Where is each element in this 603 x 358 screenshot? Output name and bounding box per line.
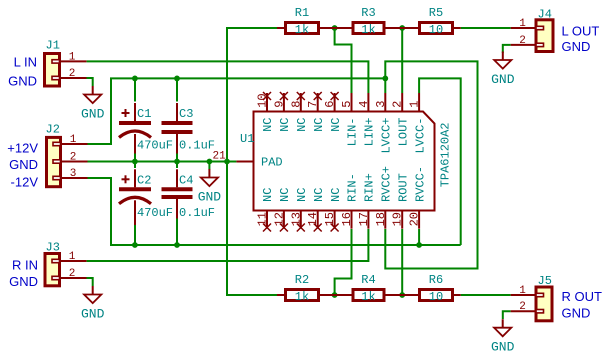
svg-text:NC: NC bbox=[295, 188, 309, 202]
U1 pin 4 (LIN+) top bbox=[357, 93, 377, 146]
U1 pin 11 (NC) bottom bbox=[256, 188, 276, 232]
svg-text:NC: NC bbox=[278, 118, 292, 132]
svg-text:4: 4 bbox=[357, 101, 371, 108]
svg-text:+12V: +12V bbox=[7, 141, 38, 156]
wire LIN- node down to U1 pin 5 bbox=[335, 28, 352, 93]
svg-text:10: 10 bbox=[256, 93, 270, 107]
U1 pin 3 (LVCC+) top bbox=[374, 93, 394, 154]
U1 pin 5 (LIN-) top bbox=[340, 93, 360, 146]
svg-text:R IN: R IN bbox=[12, 258, 38, 273]
svg-text:0.1uF: 0.1uF bbox=[179, 206, 215, 220]
node C1/+12V junction bbox=[132, 76, 138, 82]
node R2/R4/RIN- junction bbox=[332, 292, 338, 298]
svg-text:GND: GND bbox=[198, 189, 222, 204]
U1 pin 16 (RIN-) bottom bbox=[340, 173, 360, 229]
svg-text:-12V: -12V bbox=[11, 174, 39, 189]
wire C2 bottom to -12V rail bbox=[134, 225, 136, 245]
wire C1 bottom to GND rail bbox=[134, 154, 136, 162]
wire LOUT node down to U1 pin 2 bbox=[401, 28, 403, 93]
svg-text:NC: NC bbox=[329, 188, 343, 202]
ground symbol below J3 bbox=[81, 286, 105, 321]
svg-text:12: 12 bbox=[272, 212, 286, 226]
wire C2 top to GND rail bbox=[134, 162, 136, 169]
svg-text:2: 2 bbox=[69, 68, 76, 80]
svg-text:16: 16 bbox=[340, 212, 354, 226]
capacitor C2 (polarized) bbox=[119, 169, 173, 225]
svg-text:C1: C1 bbox=[137, 107, 151, 121]
connector J4 bbox=[511, 8, 553, 52]
svg-text:GND: GND bbox=[81, 106, 105, 121]
wire C3 bottom to GND rail bbox=[176, 154, 178, 162]
svg-text:NC: NC bbox=[312, 188, 326, 202]
svg-text:TPA6120A2: TPA6120A2 bbox=[438, 122, 452, 187]
connector J2 bbox=[46, 123, 88, 187]
svg-text:470uF: 470uF bbox=[137, 139, 173, 153]
svg-text:C4: C4 bbox=[179, 174, 193, 188]
node C3/C4/GND junction bbox=[174, 159, 180, 165]
node R1/R3/LIN- junction bbox=[332, 25, 338, 31]
svg-text:R4: R4 bbox=[361, 273, 375, 287]
svg-text:R3: R3 bbox=[361, 6, 375, 20]
svg-text:C2: C2 bbox=[137, 174, 151, 188]
svg-text:2: 2 bbox=[519, 301, 526, 313]
svg-text:14: 14 bbox=[306, 212, 320, 226]
wire R IN from J3.1 to U1 RIN+ (pin 17) bbox=[87, 229, 369, 261]
svg-text:GND: GND bbox=[81, 306, 105, 321]
U1 pin 9 (NC) top bbox=[272, 92, 292, 132]
wire C4 bottom to -12V rail bbox=[176, 219, 178, 246]
wire LVCC- (pin 1) jog down to -12V rail bbox=[419, 78, 461, 245]
svg-text:1: 1 bbox=[69, 51, 76, 63]
svg-text:ROUT: ROUT bbox=[396, 173, 410, 202]
svg-text:GND: GND bbox=[562, 306, 591, 321]
U1 pin 18 (RVCC+) bottom bbox=[374, 166, 394, 229]
svg-text:18: 18 bbox=[374, 212, 388, 226]
svg-text:470uF: 470uF bbox=[137, 206, 173, 220]
svg-text:R6: R6 bbox=[429, 273, 443, 287]
svg-text:1: 1 bbox=[70, 134, 77, 146]
svg-text:NC: NC bbox=[278, 188, 292, 202]
svg-text:NC: NC bbox=[261, 188, 275, 202]
svg-text:LIN-: LIN- bbox=[346, 118, 360, 147]
svg-text:RIN+: RIN+ bbox=[363, 173, 377, 202]
svg-text:0.1uF: 0.1uF bbox=[179, 139, 215, 153]
svg-text:1k: 1k bbox=[295, 290, 309, 304]
U1 pin 20 (RVCC-) bottom bbox=[408, 166, 428, 229]
svg-text:8: 8 bbox=[289, 101, 303, 108]
svg-text:J4: J4 bbox=[538, 8, 552, 22]
svg-text:3: 3 bbox=[70, 168, 77, 180]
resistor R6 bbox=[402, 273, 461, 304]
svg-text:RVCC+: RVCC+ bbox=[380, 166, 394, 202]
wire R1.right to R3.left (LIN- node) bbox=[331, 27, 346, 29]
svg-text:RIN-: RIN- bbox=[346, 173, 360, 202]
U1 pin 12 (NC) bottom bbox=[272, 188, 292, 232]
svg-text:LVCC-: LVCC- bbox=[413, 118, 427, 154]
wire -12V rail from J2.3 bbox=[87, 178, 461, 245]
svg-text:9: 9 bbox=[272, 101, 286, 108]
svg-text:6: 6 bbox=[323, 101, 337, 108]
svg-text:2: 2 bbox=[391, 101, 405, 108]
wire R5.right to J4.1 (L OUT) bbox=[461, 27, 511, 29]
svg-text:GND: GND bbox=[491, 72, 515, 87]
wire RIN- node up to U1 pin 16 bbox=[335, 229, 352, 295]
capacitor C4 bbox=[162, 169, 216, 220]
svg-text:GND: GND bbox=[8, 74, 37, 89]
svg-text:NC: NC bbox=[329, 118, 343, 132]
svg-text:J2: J2 bbox=[46, 123, 60, 137]
svg-text:GND: GND bbox=[562, 39, 591, 54]
svg-text:C3: C3 bbox=[179, 107, 193, 121]
wire R1.left to R2.left vertical link bbox=[227, 28, 277, 295]
svg-text:NC: NC bbox=[295, 118, 309, 132]
svg-text:LOUT: LOUT bbox=[396, 118, 410, 147]
wire R4.right to R6.left (ROUT node) bbox=[392, 294, 410, 296]
node R1-R2 link/GND-rail junction bbox=[224, 159, 230, 165]
svg-text:U1: U1 bbox=[240, 132, 254, 146]
U1 pin 14 (NC) bottom bbox=[306, 188, 326, 232]
svg-text:21: 21 bbox=[213, 151, 227, 163]
ground symbol below J4 bbox=[491, 52, 515, 87]
svg-text:L OUT: L OUT bbox=[562, 23, 600, 38]
svg-text:R OUT: R OUT bbox=[562, 289, 603, 304]
svg-text:5: 5 bbox=[340, 101, 354, 108]
resistor R1 bbox=[277, 6, 335, 37]
svg-text:2: 2 bbox=[69, 268, 76, 280]
node R4/R6/ROUT junction bbox=[399, 292, 405, 298]
svg-text:13: 13 bbox=[289, 212, 303, 226]
U1 pin 21 (PAD) left bbox=[213, 151, 283, 170]
node R3/R5/LOUT junction bbox=[399, 25, 405, 31]
svg-text:2: 2 bbox=[519, 35, 526, 47]
U1 pin 7 (NC) top bbox=[306, 92, 326, 132]
node C1/C2/GND junction bbox=[132, 159, 138, 165]
resistor R5 bbox=[402, 6, 461, 37]
svg-text:J3: J3 bbox=[46, 241, 60, 255]
capacitor C3 bbox=[162, 103, 216, 154]
svg-text:NC: NC bbox=[261, 118, 275, 132]
wire R3.right to R5.left (LOUT node) bbox=[392, 27, 410, 29]
svg-text:1k: 1k bbox=[361, 290, 375, 304]
resistor R4 bbox=[335, 273, 403, 304]
svg-text:17: 17 bbox=[357, 212, 371, 226]
svg-text:1k: 1k bbox=[361, 23, 375, 37]
U1 pin 2 (LOUT) top bbox=[391, 93, 411, 146]
svg-text:3: 3 bbox=[374, 101, 388, 108]
wire C4 top to GND rail bbox=[176, 162, 178, 169]
wire R2.right to R4.left (RIN- node) bbox=[331, 294, 346, 296]
U1 pin 15 (NC) bottom bbox=[323, 188, 343, 232]
connector J5 bbox=[511, 274, 552, 321]
wire LVCC+ (pin 3) to RVCC+ (pin 18) +12V loop bbox=[385, 61, 477, 268]
svg-text:J1: J1 bbox=[46, 39, 60, 53]
svg-text:1: 1 bbox=[519, 18, 526, 30]
svg-text:10: 10 bbox=[429, 23, 443, 37]
svg-text:1: 1 bbox=[519, 285, 526, 297]
node RVCC-/-12V junction bbox=[416, 242, 422, 248]
wire C1 top to +12V rail bbox=[134, 78, 136, 101]
svg-text:1: 1 bbox=[408, 101, 422, 108]
U1 pin 19 (ROUT) bottom bbox=[391, 173, 411, 229]
resistor R3 bbox=[335, 6, 403, 37]
U1 pin 8 (NC) top bbox=[289, 92, 309, 132]
node GND-symbol/GND-rail junction bbox=[207, 159, 213, 165]
wire L IN from J1.1 to U1 LIN+ (pin 4) bbox=[87, 61, 369, 93]
ground symbol below J5 bbox=[491, 319, 515, 354]
wire GND rail to mid GND symbol bbox=[208, 162, 210, 170]
node C4/-12V junction bbox=[174, 242, 180, 248]
svg-text:PAD: PAD bbox=[261, 156, 283, 170]
svg-text:GND: GND bbox=[9, 274, 38, 289]
wire RVCC- (pin 20) to -12V rail bbox=[418, 229, 420, 245]
svg-text:R2: R2 bbox=[295, 273, 309, 287]
wire J3.2 to GND symbol bbox=[85, 278, 92, 286]
wire +12V rail from J2.1 bbox=[87, 78, 386, 144]
svg-text:RVCC-: RVCC- bbox=[413, 166, 427, 202]
ground symbol on GND rail bbox=[198, 169, 222, 204]
node LVCC+/+12V junction bbox=[382, 76, 388, 82]
svg-text:R1: R1 bbox=[295, 6, 309, 20]
svg-text:15: 15 bbox=[323, 212, 337, 226]
wire J4.2 to GND symbol bbox=[503, 45, 511, 53]
node C3/+12V junction bbox=[174, 76, 180, 82]
ground symbol below J1 bbox=[81, 86, 105, 121]
svg-text:11: 11 bbox=[256, 212, 270, 226]
U1 pin 6 (NC) top bbox=[323, 92, 343, 132]
svg-text:10: 10 bbox=[429, 290, 443, 304]
U1 pin 10 (NC) top bbox=[256, 92, 276, 132]
svg-text:R5: R5 bbox=[429, 6, 443, 20]
svg-text:1k: 1k bbox=[295, 23, 309, 37]
svg-text:LIN+: LIN+ bbox=[363, 118, 377, 147]
connector J1 bbox=[45, 39, 87, 87]
svg-text:7: 7 bbox=[306, 101, 320, 108]
svg-text:GND: GND bbox=[491, 340, 515, 355]
wire C3 top to +12V rail bbox=[176, 78, 178, 101]
svg-text:LVCC+: LVCC+ bbox=[380, 118, 394, 154]
wire J5.2 to GND symbol bbox=[503, 311, 511, 319]
wire R6.right to J5.1 (R OUT) bbox=[461, 294, 511, 296]
svg-text:J5: J5 bbox=[538, 274, 552, 288]
wire GND rail from J2.2 to U1 PAD bbox=[87, 161, 237, 163]
connector J3 bbox=[45, 241, 87, 286]
U1 pin 1 (LVCC-) top bbox=[408, 93, 428, 154]
node C2/-12V junction bbox=[132, 242, 138, 248]
svg-text:2: 2 bbox=[70, 152, 77, 164]
resistor R2 bbox=[277, 273, 335, 304]
svg-text:GND: GND bbox=[9, 157, 38, 172]
U1 pin 17 (RIN+) bottom bbox=[357, 173, 377, 229]
svg-text:20: 20 bbox=[408, 212, 422, 226]
svg-text:NC: NC bbox=[312, 118, 326, 132]
wire J1.2 to GND symbol bbox=[85, 78, 92, 86]
capacitor C1 (polarized) bbox=[119, 103, 173, 154]
svg-text:19: 19 bbox=[391, 212, 405, 226]
svg-text:L IN: L IN bbox=[14, 55, 37, 70]
U1 pin 13 (NC) bottom bbox=[289, 188, 309, 232]
wire ROUT node up to U1 pin 19 bbox=[401, 229, 403, 295]
op-amp U1 TPA6120A2 body bbox=[254, 112, 435, 211]
svg-text:1: 1 bbox=[69, 251, 76, 263]
